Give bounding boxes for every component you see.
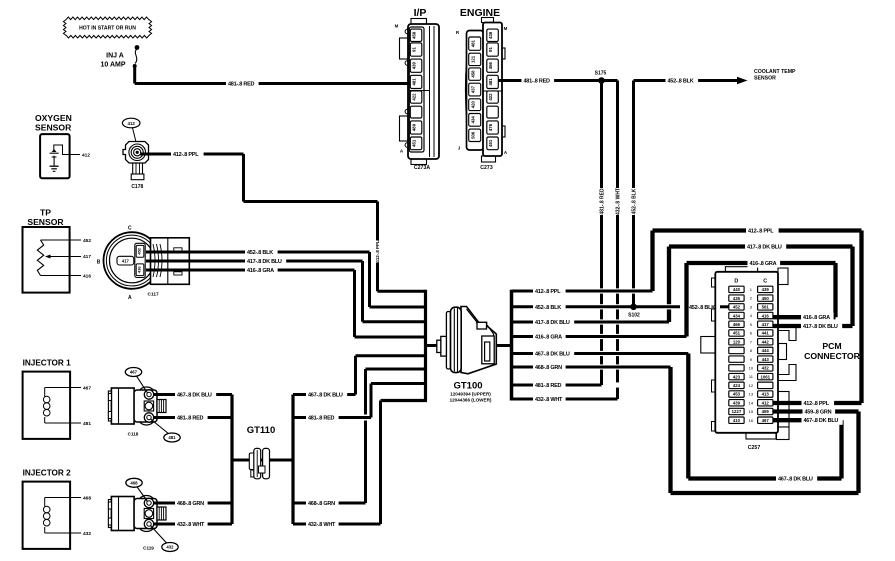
svg-text:416-.8 GRA: 416-.8 GRA bbox=[750, 261, 777, 267]
svg-text:416-.8 GRA: 416-.8 GRA bbox=[535, 334, 562, 340]
svg-text:13: 13 bbox=[749, 392, 754, 397]
svg-text:481: 481 bbox=[168, 435, 176, 440]
svg-text:422: 422 bbox=[488, 93, 493, 101]
svg-text:412: 412 bbox=[762, 400, 770, 405]
svg-text:439: 439 bbox=[733, 400, 741, 405]
svg-text:432: 432 bbox=[83, 531, 91, 537]
svg-text:423: 423 bbox=[733, 374, 741, 379]
svg-text:416: 416 bbox=[762, 313, 770, 318]
svg-text:452-.8 BLK: 452-.8 BLK bbox=[631, 188, 637, 214]
svg-text:481: 481 bbox=[412, 78, 417, 86]
svg-text:417-.8 DK BLU: 417-.8 DK BLU bbox=[803, 324, 838, 330]
svg-text:416: 416 bbox=[83, 274, 91, 280]
svg-text:452: 452 bbox=[733, 305, 741, 310]
svg-text:417: 417 bbox=[122, 258, 130, 263]
svg-text:467-.8 DK BLU: 467-.8 DK BLU bbox=[778, 476, 813, 482]
svg-text:C119: C119 bbox=[143, 546, 154, 551]
svg-text:432-.8 WHT: 432-.8 WHT bbox=[615, 188, 621, 215]
svg-text:434: 434 bbox=[471, 116, 476, 124]
svg-text:441: 441 bbox=[762, 331, 770, 336]
svg-text:120: 120 bbox=[733, 339, 741, 344]
svg-text:468-.8 GRN: 468-.8 GRN bbox=[535, 365, 562, 371]
svg-text:ENGINE: ENGINE bbox=[460, 7, 500, 19]
svg-text:C273: C273 bbox=[480, 165, 493, 171]
svg-text:451: 451 bbox=[412, 139, 417, 147]
svg-text:417: 417 bbox=[83, 254, 91, 260]
svg-text:412-.8 PPL: 412-.8 PPL bbox=[375, 240, 380, 263]
svg-text:443: 443 bbox=[762, 357, 770, 362]
svg-text:481: 481 bbox=[83, 421, 91, 427]
svg-text:121: 121 bbox=[471, 55, 476, 63]
svg-text:1227: 1227 bbox=[732, 409, 742, 414]
svg-text:432: 432 bbox=[762, 366, 770, 371]
svg-text:422: 422 bbox=[412, 93, 417, 101]
svg-text:481-.8 RED: 481-.8 RED bbox=[599, 188, 605, 215]
svg-text:432-.8 WHT: 432-.8 WHT bbox=[308, 522, 336, 528]
svg-text:456: 456 bbox=[488, 62, 493, 70]
svg-text:INJ A: INJ A bbox=[106, 53, 124, 60]
svg-text:468: 468 bbox=[83, 495, 91, 501]
svg-text:468-.8 GRN: 468-.8 GRN bbox=[177, 501, 204, 507]
svg-text:15: 15 bbox=[749, 409, 754, 414]
svg-text:481: 481 bbox=[471, 39, 476, 47]
svg-text:452-.8 BLK: 452-.8 BLK bbox=[668, 78, 694, 84]
svg-text:481-.8 RED: 481-.8 RED bbox=[177, 415, 204, 421]
svg-text:10 AMP: 10 AMP bbox=[100, 62, 125, 69]
svg-text:467: 467 bbox=[130, 370, 138, 375]
svg-text:453: 453 bbox=[733, 392, 741, 397]
svg-text:458: 458 bbox=[412, 31, 417, 39]
svg-text:91: 91 bbox=[412, 47, 417, 52]
svg-text:12049394 (UPPER): 12049394 (UPPER) bbox=[450, 392, 491, 397]
svg-text:C257: C257 bbox=[748, 445, 761, 451]
svg-text:PCM: PCM bbox=[822, 341, 841, 351]
svg-text:438: 438 bbox=[488, 31, 493, 39]
svg-text:434: 434 bbox=[733, 313, 741, 318]
svg-text:459: 459 bbox=[762, 409, 770, 414]
svg-text:489: 489 bbox=[412, 123, 417, 131]
svg-text:468: 468 bbox=[130, 481, 138, 486]
svg-text:412: 412 bbox=[128, 121, 136, 126]
svg-text:10: 10 bbox=[749, 365, 754, 370]
svg-text:C: C bbox=[128, 226, 132, 232]
svg-text:CONNECTOR: CONNECTOR bbox=[804, 351, 861, 361]
svg-text:A: A bbox=[128, 295, 132, 301]
svg-text:12044366 (LOWER): 12044366 (LOWER) bbox=[450, 398, 492, 403]
svg-text:12: 12 bbox=[749, 383, 754, 388]
svg-text:444: 444 bbox=[762, 348, 770, 353]
svg-text:S102: S102 bbox=[628, 313, 640, 319]
svg-text:506: 506 bbox=[471, 131, 476, 139]
svg-text:C273A: C273A bbox=[414, 165, 430, 171]
svg-text:1061: 1061 bbox=[760, 374, 770, 379]
svg-text:SENSOR: SENSOR bbox=[27, 217, 64, 227]
svg-text:468-.8 GRN: 468-.8 GRN bbox=[308, 501, 335, 507]
svg-text:452: 452 bbox=[137, 247, 142, 254]
svg-text:481: 481 bbox=[488, 78, 493, 86]
svg-text:417-.8 DK BLU: 417-.8 DK BLU bbox=[247, 259, 282, 265]
svg-text:COOLANT TEMP: COOLANT TEMP bbox=[754, 69, 796, 75]
svg-text:413: 413 bbox=[762, 392, 770, 397]
svg-text:417: 417 bbox=[762, 322, 770, 327]
svg-text:458: 458 bbox=[471, 70, 476, 78]
svg-text:C178: C178 bbox=[131, 184, 143, 190]
svg-text:412: 412 bbox=[82, 152, 90, 158]
svg-text:451: 451 bbox=[733, 331, 741, 336]
svg-text:16: 16 bbox=[749, 418, 754, 423]
svg-text:417-.8 DK BLU: 417-.8 DK BLU bbox=[747, 244, 782, 250]
svg-text:412-.8 PPL: 412-.8 PPL bbox=[535, 289, 561, 295]
svg-text:C118: C118 bbox=[128, 432, 139, 437]
svg-text:432-.8 WHT: 432-.8 WHT bbox=[177, 522, 205, 528]
svg-text:435: 435 bbox=[733, 296, 741, 301]
svg-text:432-.8 WHT: 432-.8 WHT bbox=[535, 397, 563, 403]
svg-text:410: 410 bbox=[733, 418, 741, 423]
svg-text:467-.8 DK BLU: 467-.8 DK BLU bbox=[308, 392, 343, 398]
svg-text:437: 437 bbox=[471, 85, 476, 93]
svg-text:INJECTOR 2: INJECTOR 2 bbox=[23, 469, 72, 478]
svg-text:481-.8 RED: 481-.8 RED bbox=[228, 81, 255, 87]
svg-text:416-.8 GRA: 416-.8 GRA bbox=[247, 268, 274, 274]
svg-text:442: 442 bbox=[762, 339, 770, 344]
svg-text:561: 561 bbox=[762, 305, 770, 310]
svg-text:420: 420 bbox=[471, 101, 476, 109]
svg-text:452-.8 BLK: 452-.8 BLK bbox=[247, 250, 273, 256]
svg-text:14: 14 bbox=[749, 400, 754, 405]
svg-text:424: 424 bbox=[733, 383, 741, 388]
svg-text:467-.8 DK BLU: 467-.8 DK BLU bbox=[804, 418, 839, 424]
svg-text:452-.8 BLK: 452-.8 BLK bbox=[535, 305, 561, 311]
svg-text:451: 451 bbox=[488, 139, 493, 147]
svg-text:INJECTOR 1: INJECTOR 1 bbox=[23, 359, 72, 368]
svg-text:GT100: GT100 bbox=[453, 381, 482, 392]
svg-text:459-.8 GRN: 459-.8 GRN bbox=[805, 409, 832, 415]
svg-text:S175: S175 bbox=[595, 71, 607, 77]
svg-text:91: 91 bbox=[488, 47, 493, 52]
svg-text:481-.8 RED: 481-.8 RED bbox=[308, 415, 335, 421]
svg-text:452: 452 bbox=[83, 238, 91, 244]
svg-text:481-.8 RED: 481-.8 RED bbox=[535, 383, 562, 389]
svg-text:439: 439 bbox=[762, 287, 770, 292]
svg-text:467: 467 bbox=[762, 418, 770, 423]
svg-text:416: 416 bbox=[137, 266, 142, 273]
svg-text:B: B bbox=[97, 260, 101, 266]
svg-text:I/P: I/P bbox=[414, 7, 427, 19]
svg-text:C117: C117 bbox=[148, 292, 160, 298]
svg-text:SENSOR: SENSOR bbox=[35, 122, 72, 132]
svg-text:439: 439 bbox=[412, 62, 417, 70]
svg-text:416-.8 GRA: 416-.8 GRA bbox=[803, 315, 830, 321]
svg-text:440: 440 bbox=[733, 287, 741, 292]
svg-text:HOT IN START OR RUN: HOT IN START OR RUN bbox=[79, 25, 136, 31]
svg-text:GT110: GT110 bbox=[247, 425, 276, 436]
svg-text:D: D bbox=[734, 279, 738, 285]
svg-text:417-.8 DK BLU: 417-.8 DK BLU bbox=[535, 320, 570, 326]
svg-text:467: 467 bbox=[83, 385, 91, 391]
svg-text:466: 466 bbox=[733, 322, 741, 327]
svg-text:C: C bbox=[763, 279, 767, 285]
svg-text:412-.8 PPL: 412-.8 PPL bbox=[748, 228, 774, 234]
svg-text:450: 450 bbox=[762, 296, 770, 301]
svg-text:452-.8 BLK: 452-.8 BLK bbox=[689, 305, 715, 311]
svg-text:432: 432 bbox=[166, 545, 174, 550]
svg-text:412-.8 PPL: 412-.8 PPL bbox=[804, 401, 830, 407]
svg-text:M: M bbox=[504, 26, 508, 31]
svg-text:SENSOR: SENSOR bbox=[754, 76, 776, 82]
svg-text:M: M bbox=[395, 24, 399, 29]
svg-text:476: 476 bbox=[488, 123, 493, 131]
svg-text:481-.8 RED: 481-.8 RED bbox=[524, 78, 551, 84]
svg-text:467-.8 DK BLU: 467-.8 DK BLU bbox=[177, 392, 212, 398]
svg-text:412-.8 PPL: 412-.8 PPL bbox=[173, 152, 199, 158]
svg-text:467-.8 DK BLU: 467-.8 DK BLU bbox=[535, 351, 570, 357]
